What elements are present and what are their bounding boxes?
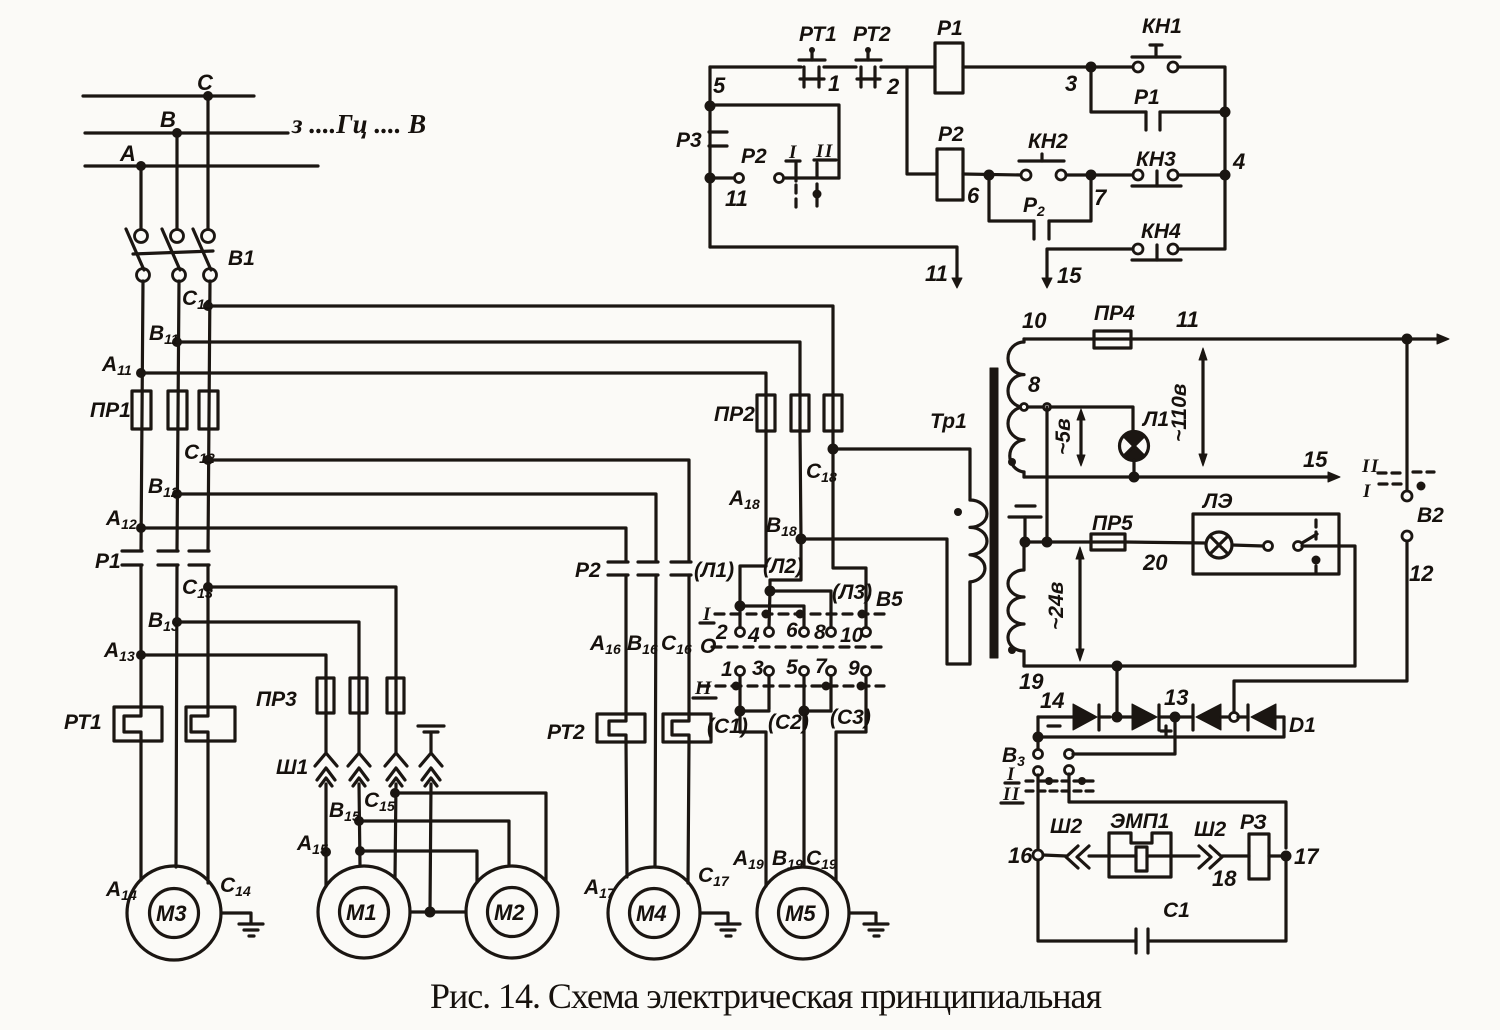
wire 19 rail down to bridge [1115, 666, 1118, 717]
thermal contact RT2 [856, 47, 881, 87]
wire L2 stem to contact 4 [769, 591, 770, 627]
node 13 plus [1170, 712, 1181, 723]
transformer Tr1 secondary lower winding [1008, 542, 1024, 666]
wire C1 bracket to M5 lead A19 [740, 711, 766, 886]
switch B5 row I contact dots [762, 610, 867, 619]
fuse PR1 pole B [168, 391, 187, 429]
switch B5 row II dashed [700, 684, 884, 687]
wire RT1-A to motor M3 [139, 741, 142, 880]
dimension ~110v [1199, 348, 1207, 466]
svg-text:Л1: Л1 [1141, 408, 1169, 431]
svg-text:Р1: Р1 [95, 550, 121, 573]
wire control top rail [710, 65, 801, 68]
contactor P1 contact pole C [189, 551, 209, 565]
wire lamp to switch in LE [1232, 545, 1263, 546]
node B18 [796, 534, 807, 545]
svg-text:А19: А19 [732, 847, 764, 872]
wire EMP1 to Sh2 right [1171, 854, 1199, 857]
motor M4 [608, 867, 700, 959]
wire M3 to ground [221, 913, 251, 923]
wire lower branch to M2 [360, 851, 477, 882]
motor M1 [318, 866, 410, 958]
svg-text:ЛЭ: ЛЭ [1201, 490, 1233, 513]
wire 24v node to fuse PR5 [1025, 540, 1091, 543]
wire control left vertical [708, 67, 711, 247]
svg-text:II: II [1361, 456, 1380, 477]
thermal relay RT2 heater C [663, 714, 711, 742]
button KN1 [1132, 45, 1180, 72]
wire capacitor to node 17 [1148, 856, 1286, 941]
svg-text:В1: В1 [228, 247, 255, 270]
selector blade II [813, 163, 822, 212]
wire B18 to transformer primary bottom [801, 539, 970, 664]
svg-text:Р3: Р3 [676, 129, 702, 152]
wire C2 link 5-7 [804, 709, 831, 712]
connector Sh1 pin A [315, 753, 337, 786]
wire contact 7 stem [829, 676, 832, 711]
wire tap to lamp L1 [1051, 407, 1133, 432]
wire B12 branch to P2 contact [177, 494, 656, 561]
ground at M3 [239, 924, 263, 936]
svg-text:Р2: Р2 [1023, 194, 1045, 219]
node on column B lower [355, 846, 365, 856]
motor M2 [466, 866, 558, 958]
svg-text:7: 7 [815, 655, 828, 678]
node A15 [321, 847, 331, 857]
svg-text:3: 3 [752, 657, 764, 680]
svg-text:ПР1: ПР1 [90, 399, 131, 422]
svg-text:Ш1: Ш1 [276, 756, 308, 779]
svg-text:15: 15 [1303, 447, 1328, 472]
wire A12 branch to P2 contact [141, 528, 626, 561]
node A [136, 161, 146, 171]
svg-text:ПР3: ПР3 [256, 688, 297, 711]
svg-text:А18: А18 [728, 487, 760, 512]
motor M3 [127, 866, 221, 960]
svg-text:В18: В18 [766, 514, 797, 539]
connector B3 terminal left [1034, 750, 1043, 759]
ground above connector 4 [418, 726, 444, 752]
wire B11 branch to PR2 [177, 342, 800, 395]
wire contact 5 stem [802, 676, 805, 711]
wire column B switch to P1 contact [177, 281, 179, 551]
wire line 11 left segment [1024, 337, 1094, 340]
wire connector A to M1 [324, 784, 327, 886]
node M1-M2 link [425, 907, 436, 918]
connector Sh1 pin C [385, 753, 407, 786]
svg-text:(С1): (С1) [707, 715, 748, 738]
node C2 junction [799, 706, 810, 717]
svg-text:16: 16 [1008, 843, 1033, 868]
node on L2 stem [765, 586, 776, 597]
wire C15 branch to M2 [395, 793, 546, 881]
selector II/I at B2 [1378, 472, 1434, 491]
svg-text:А12: А12 [105, 507, 137, 532]
svg-text:8: 8 [814, 621, 826, 644]
svg-text:13: 13 [1164, 685, 1188, 710]
node C13 [203, 582, 213, 592]
arrow 11 down [952, 278, 962, 288]
wire B13 branch to PR3 [177, 622, 359, 678]
wire connector ground to M1-M2 link [430, 784, 431, 912]
svg-text:М4: М4 [636, 901, 667, 926]
fuse PR2 pole B [791, 395, 809, 431]
thermal relay RT1 heater C [186, 707, 235, 741]
node 17 [1281, 851, 1292, 862]
svg-text:15: 15 [1057, 263, 1082, 288]
svg-text:КН1: КН1 [1142, 15, 1182, 38]
node C [203, 91, 213, 101]
wire KN3 to node 4 [1178, 173, 1225, 176]
contact P2 self-hold [989, 175, 1091, 239]
svg-text:А14: А14 [105, 878, 137, 903]
wire contact 1 stem [738, 676, 741, 711]
secondary upper polarity dot [1008, 458, 1016, 466]
svg-text:9: 9 [848, 657, 860, 680]
button KN3 [1132, 170, 1181, 186]
node B15 [354, 816, 364, 826]
svg-text:10: 10 [1022, 308, 1047, 333]
node 5 junction [705, 101, 716, 112]
svg-text:18: 18 [1212, 866, 1237, 891]
node 19 rail junction [1112, 661, 1123, 672]
svg-text:3: 3 [1065, 71, 1077, 96]
svg-text:4: 4 [1232, 149, 1245, 174]
switch B5 lower contact circles 1,3,5,7,9 [736, 667, 871, 676]
wire KN1 to corner [1178, 67, 1225, 175]
wire M5 to ground [849, 913, 876, 923]
switch B5 upper contact circles 2,4,6,8,10 [736, 628, 871, 637]
svg-text:11: 11 [1176, 307, 1199, 332]
node B [172, 128, 182, 138]
wire RT2-C to motor M4 [688, 742, 689, 883]
svg-text:ПР4: ПР4 [1094, 302, 1135, 325]
lamp L1 [1120, 432, 1149, 461]
lamp inside LE [1206, 532, 1232, 558]
wire lamp to line 15 [1132, 460, 1135, 477]
wire between RT contacts [824, 65, 856, 68]
switch B1 crossbar link [133, 251, 213, 254]
switch in LE [1264, 520, 1321, 572]
svg-text:(Л2): (Л2) [763, 555, 803, 578]
wire coil P2 to node 6 [963, 174, 1022, 175]
wire KN4 to arrow 15 [1047, 249, 1133, 280]
svg-text:В19: В19 [772, 847, 803, 872]
wire L1 stem cross to contact 6 [740, 606, 804, 627]
svg-text:C: C [197, 70, 214, 95]
wire B16 column [655, 575, 656, 867]
tap 8 on upper winding [1021, 404, 1051, 411]
wire C12 branch to P2 contact [208, 460, 689, 561]
wire column A switch to P1 contact [141, 281, 143, 551]
connector Sh2 left [1066, 846, 1089, 868]
wire control bottom rail [710, 247, 957, 280]
svg-text:А17: А17 [583, 876, 616, 901]
node 6 [984, 170, 995, 181]
svg-text:В5: В5 [876, 588, 903, 611]
wire RT1-C to motor M3 [206, 741, 209, 883]
wire L1 bracket from A18 [740, 566, 766, 627]
fuse PR3 pole A [317, 678, 334, 713]
selector I/II lower [1026, 766, 1096, 792]
svg-text:С17: С17 [698, 864, 730, 889]
wire L2 bracket from B18 [770, 539, 801, 591]
svg-text:А11: А11 [101, 353, 132, 378]
svg-text:A: A [119, 141, 136, 166]
svg-text:М1: М1 [346, 900, 377, 925]
wire M4 to ground [700, 913, 728, 923]
svg-text:В16: В16 [627, 632, 658, 657]
svg-text:ЭМП1: ЭМП1 [1110, 810, 1169, 833]
wire primary lower lead [968, 582, 971, 664]
thermal relay RT1 heater A [114, 707, 162, 741]
wire blades to right vertical [798, 176, 839, 179]
svg-text:14: 14 [1040, 688, 1064, 713]
node 24v top right [1042, 537, 1053, 548]
connector Sh2 right [1199, 846, 1222, 868]
svg-text:РТ1: РТ1 [799, 23, 837, 46]
wire selector to 16 [1036, 775, 1039, 850]
svg-text:6: 6 [967, 183, 980, 208]
electromagnet EMP1 box [1109, 833, 1171, 877]
wire column C switch to P1 contact [208, 281, 210, 551]
svg-text:КН2: КН2 [1028, 130, 1068, 153]
svg-text:7: 7 [1094, 185, 1108, 210]
wire coil P1 to node 3 [963, 65, 1133, 68]
arrow line 15 end [1328, 472, 1340, 482]
wire bridge right return [1038, 717, 1284, 737]
svg-text:А15: А15 [296, 832, 328, 857]
fuse PR3 pole B [350, 678, 367, 713]
svg-text:(Л3): (Л3) [832, 581, 872, 604]
wire connector C to M1 [395, 784, 396, 878]
fuse PR2 pole A [757, 395, 775, 431]
svg-text:10: 10 [840, 624, 864, 647]
svg-text:Р2: Р2 [938, 123, 964, 146]
svg-text:РЗ: РЗ [1240, 811, 1267, 834]
connector Sh1 pin B [348, 753, 370, 786]
node C1 junction [735, 706, 746, 717]
wire selector to 17 rail [1069, 774, 1286, 848]
transformer Tr1 core [990, 368, 998, 658]
contactor P2 contact pole C [671, 562, 691, 575]
node B13 [172, 617, 182, 627]
switch B5 row II contact dots [732, 682, 866, 691]
resistor R3 [1249, 834, 1269, 879]
svg-text:1: 1 [721, 658, 733, 681]
node 4 [1220, 170, 1231, 181]
svg-text:11: 11 [725, 186, 748, 211]
wire 16 down to capacitor C1 [1038, 860, 1136, 941]
svg-text:РТ1: РТ1 [64, 711, 102, 734]
wire contact 3 stem [767, 676, 770, 709]
relay coil P2 [937, 149, 963, 200]
fuse PR4 [1094, 331, 1131, 348]
svg-text:Ш2: Ш2 [1194, 818, 1227, 841]
svg-text:РТ2: РТ2 [547, 721, 585, 744]
svg-text:ПР5: ПР5 [1092, 512, 1133, 535]
wire LE box to 19 rail [1302, 546, 1355, 666]
rectifier D1 rail [1038, 715, 1073, 718]
svg-text:В11: В11 [149, 322, 179, 347]
wire A18 column [764, 431, 767, 566]
node B3 left [1033, 732, 1044, 743]
svg-text:1: 1 [828, 71, 840, 96]
svg-text:Рис. 14. Схема электрическая п: Рис. 14. Схема электрическая принципиаль… [430, 976, 1102, 1016]
wire 16 to Sh2 [1043, 855, 1066, 856]
svg-text:Ш2: Ш2 [1050, 815, 1083, 838]
thermal contact RT1 [799, 47, 825, 87]
capacitor C1 [1136, 929, 1148, 953]
node line 11 / B2 [1402, 334, 1413, 345]
node C11 [203, 301, 213, 311]
wire A11 branch to PR2 [141, 373, 766, 395]
selector blade I [794, 163, 797, 212]
secondary lower polarity dot [1008, 646, 1016, 654]
wire column B P1 to M3 [176, 565, 177, 867]
wire tap node down to 24v node [1045, 407, 1048, 542]
fuse PR1 pole A [132, 391, 151, 429]
node 7 [1086, 170, 1097, 181]
switch B5 row I dashed [715, 612, 884, 615]
wire line 15 [1024, 475, 1331, 478]
wire EMP1 internal right [1147, 854, 1171, 857]
wire C13 branch to PR3 [208, 587, 396, 678]
wire B15 branch to M2 [359, 821, 509, 866]
wire A13 branch to PR3 [141, 655, 326, 678]
wire RT2-A to motor M4 [626, 742, 627, 877]
svg-text:I: I [1362, 481, 1372, 502]
svg-text:6: 6 [786, 619, 798, 642]
wire column C P1 to RT1 [206, 565, 209, 707]
svg-text:(С3): (С3) [830, 706, 871, 729]
svg-text:D1: D1 [1289, 714, 1316, 737]
wire node5 upper branch [710, 105, 839, 178]
ground at M5 [864, 924, 888, 936]
wire R3 to node 17 [1269, 854, 1286, 857]
node between D1-3 and D1-4 [1230, 713, 1239, 722]
wire A16 column [624, 575, 627, 714]
wire winding bottom to line 15 [1022, 472, 1025, 477]
switch B1 pole C [193, 229, 217, 282]
svg-text:КН3: КН3 [1136, 148, 1176, 171]
motor M5 [757, 867, 849, 959]
contact P2 n.o. with plug [714, 174, 794, 183]
wire PR3-C to connector [394, 713, 397, 752]
svg-text:5: 5 [713, 73, 726, 98]
svg-text:11: 11 [925, 261, 948, 286]
arrow line 11 end [1407, 334, 1449, 344]
svg-text:С11: С11 [182, 287, 212, 312]
contactor P1 contact pole B [158, 551, 178, 565]
svg-text:М5: М5 [785, 901, 816, 926]
terminal 16 [1033, 850, 1043, 860]
fuse PR2 pole C [824, 395, 842, 431]
contactor P2 contact pole B [638, 562, 658, 575]
svg-text:В15: В15 [329, 799, 360, 824]
wire connector B to M1 [359, 784, 360, 866]
diode D1-3 reversed [1175, 704, 1228, 730]
svg-text:М2: М2 [494, 900, 525, 925]
wire contact 9 stem and C3 bracket to M5 lead C19 [836, 676, 866, 881]
svg-text:ПР2: ПР2 [714, 403, 755, 426]
relay coil P1 [935, 43, 963, 93]
svg-text:B: B [160, 107, 176, 132]
wire Sh2 to EMP1 [1089, 854, 1109, 857]
wire phase C bus [83, 94, 254, 97]
transformer Tr1 primary winding [970, 500, 987, 582]
switch B2 [1402, 344, 1412, 541]
button KN2 [1019, 154, 1066, 180]
node C12 [203, 455, 213, 465]
wire winding top to line 11 [1022, 339, 1025, 342]
svg-text:II: II [694, 678, 713, 699]
svg-text:8: 8 [1028, 372, 1041, 397]
dimension ~24v [1076, 547, 1084, 661]
wire EMP1 internal left [1109, 854, 1136, 857]
ground at M4 [716, 924, 740, 936]
wire PR5 to LE box [1125, 542, 1205, 543]
transformer Tr1 secondary upper winding [1008, 342, 1024, 472]
wire C2 to M5 lead B19 [802, 711, 805, 867]
svg-text:В12: В12 [148, 475, 179, 500]
svg-text:~5в: ~5в [1052, 418, 1075, 455]
svg-text:2: 2 [715, 621, 728, 644]
node 3 [1086, 62, 1097, 73]
thermal relay RT2 heater A [597, 714, 645, 742]
diode D1-4 reversed [1238, 704, 1284, 730]
diode D1-1 [1073, 704, 1110, 730]
svg-text:(Л1): (Л1) [694, 559, 734, 582]
node between D1-1 and D1-2 [1112, 712, 1123, 723]
wire 12 from B2 to bridge [1234, 541, 1407, 712]
svg-text:С19: С19 [806, 847, 837, 872]
wire RT2 to coil P1 [881, 65, 935, 68]
svg-text:М3: М3 [156, 901, 187, 926]
wire B3 right to node 13 [1073, 717, 1175, 754]
lamp box LE [1193, 514, 1339, 574]
dimension ~5v [1077, 409, 1085, 466]
svg-text:12: 12 [1409, 561, 1434, 586]
switch B1 pole A [126, 229, 150, 282]
svg-text:А16: А16 [589, 632, 621, 657]
contact P3 [709, 132, 727, 146]
wire node4 to KN4 [1178, 175, 1225, 249]
fuse PR1 pole C [199, 391, 218, 429]
wire phase B bus [85, 131, 288, 134]
svg-text:С16: С16 [661, 632, 692, 657]
wire C16 column [687, 575, 690, 714]
wire B drop to switch [175, 133, 178, 229]
svg-text:5: 5 [786, 656, 798, 679]
node B12 [172, 489, 182, 499]
connector B3 terminal right [1065, 750, 1074, 759]
node C15 [390, 788, 400, 798]
minus sign [1048, 724, 1060, 727]
svg-text:С14: С14 [220, 874, 251, 899]
svg-text:РТ2: РТ2 [853, 23, 891, 46]
switch B1 pole B [162, 229, 186, 282]
svg-text:В2: В2 [1417, 504, 1444, 527]
wire C18 column [831, 431, 834, 449]
wire PR3-A to connector [324, 713, 327, 752]
svg-text:~110в: ~110в [1168, 383, 1191, 442]
svg-text:4: 4 [747, 624, 760, 647]
svg-text:Тр1: Тр1 [930, 410, 967, 433]
wire node 19 rail [1024, 664, 1355, 667]
wire column A P1 to RT1 [139, 565, 142, 707]
contactor P1 contact pole A [122, 551, 142, 565]
